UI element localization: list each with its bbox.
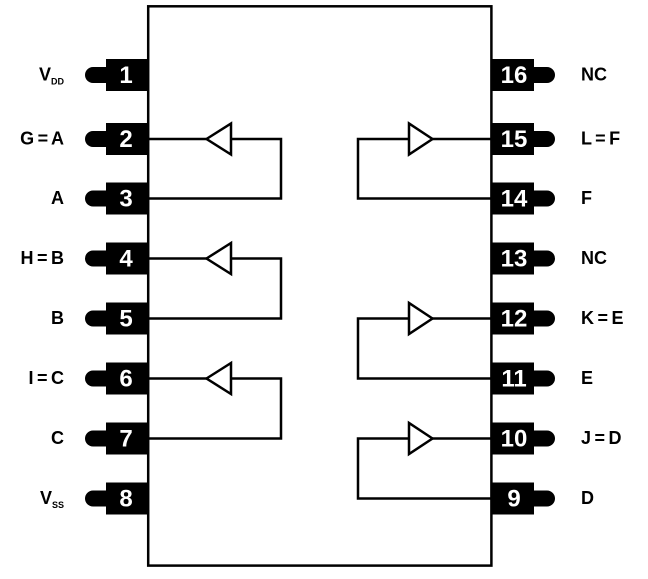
svg-text:7: 7: [119, 426, 132, 453]
svg-text:NC: NC: [581, 248, 607, 268]
svg-text:12: 12: [501, 306, 528, 333]
svg-text:L = F: L = F: [581, 129, 620, 149]
svg-text:J = D: J = D: [581, 428, 622, 448]
svg-text:I = C: I = C: [28, 368, 64, 388]
svg-text:D: D: [581, 488, 594, 508]
svg-text:11: 11: [501, 366, 526, 393]
svg-text:G = A: G = A: [20, 129, 64, 149]
svg-text:1: 1: [119, 62, 132, 89]
svg-text:9: 9: [507, 486, 520, 513]
svg-text:10: 10: [501, 426, 528, 453]
svg-text:8: 8: [119, 486, 132, 513]
svg-text:K = E: K = E: [581, 308, 624, 328]
svg-text:3: 3: [119, 186, 132, 213]
svg-text:C: C: [51, 428, 64, 448]
svg-text:15: 15: [501, 126, 528, 153]
svg-text:16: 16: [501, 62, 528, 89]
svg-text:14: 14: [501, 186, 528, 213]
svg-text:13: 13: [501, 246, 528, 273]
svg-text:4: 4: [119, 246, 133, 273]
svg-text:6: 6: [119, 366, 132, 393]
svg-text:5: 5: [119, 306, 132, 333]
svg-text:A: A: [51, 188, 64, 208]
svg-text:F: F: [581, 188, 592, 208]
svg-text:E: E: [581, 368, 593, 388]
svg-text:2: 2: [119, 126, 132, 153]
svg-text:H = B: H = B: [20, 248, 64, 268]
svg-text:NC: NC: [581, 65, 607, 85]
svg-text:B: B: [51, 308, 64, 328]
